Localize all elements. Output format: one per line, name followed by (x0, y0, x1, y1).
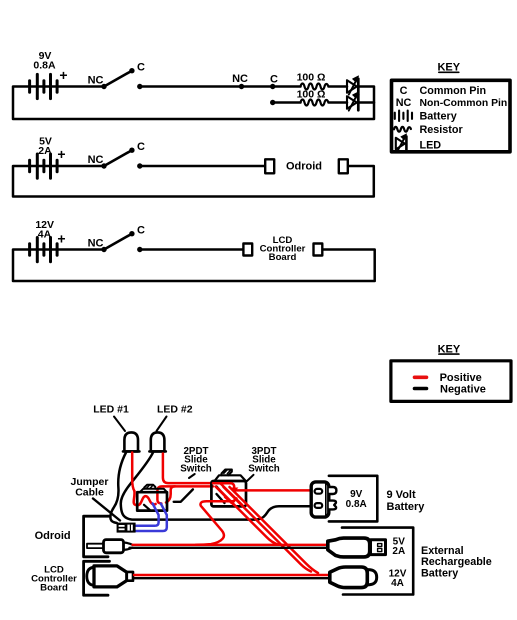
Odroid bracket (84, 516, 110, 557)
red S-wire 3PDT to lower red rail (196, 501, 234, 545)
svg-text:Common Pin: Common Pin (420, 85, 487, 97)
LCD Controller Board label (260, 235, 306, 263)
wire LED2 positive leg (red) (163, 454, 213, 484)
red hatches inside 3PDT (216, 484, 243, 506)
wire black LCD to 12V rail (134, 577, 330, 579)
wire loop2 (13, 166, 374, 197)
svg-text:Odroid: Odroid (286, 161, 322, 173)
9V box (329, 476, 377, 522)
Odroid pin left (265, 159, 274, 173)
svg-text:Cable: Cable (75, 486, 104, 498)
svg-text:C: C (270, 74, 278, 86)
label 12V 4A (389, 568, 407, 589)
LCD pin right (314, 244, 323, 256)
red arrowhead in 3PDT (230, 488, 238, 493)
red feed through 3PDT (213, 483, 234, 489)
svg-text:2A: 2A (392, 546, 405, 557)
svg-text:Battery: Battery (387, 501, 426, 513)
LED D1 (347, 76, 359, 95)
LCD bracket (84, 561, 110, 595)
svg-text:Positive: Positive (440, 372, 482, 384)
battery B1 label 9V 0.8A (33, 50, 67, 83)
jumper cable connector (117, 523, 136, 533)
key1 row C (400, 85, 487, 97)
key1 row NC (396, 97, 508, 109)
svg-text:Battery: Battery (420, 111, 457, 123)
key1 battery icon (395, 111, 412, 121)
red wave inside 2PDT (134, 491, 156, 505)
battery B2 label 5V 2A (38, 136, 65, 163)
resistor R2 100ohm (297, 89, 329, 106)
svg-text:NC: NC (88, 238, 104, 250)
switch S3 (88, 225, 145, 253)
wire LED1 negative leg (black) (110, 453, 126, 524)
blue jumper wire 2 (136, 504, 167, 532)
red diagonal 3PDT to 12V a (224, 487, 312, 572)
red diagonal 3PDT to 12V b (230, 487, 319, 573)
key2 box (391, 361, 511, 402)
key2 positive (415, 372, 482, 384)
label LED #1 (93, 404, 129, 432)
svg-text:Battery: Battery (421, 567, 458, 579)
svg-text:C: C (400, 85, 408, 97)
wire red LCD to 12V rail (134, 574, 330, 576)
node NC2 (232, 73, 248, 89)
external battery bracket (342, 528, 413, 595)
svg-text:NC: NC (396, 97, 412, 109)
wire loop1 (13, 87, 374, 120)
wire LED1 positive leg (red) (132, 453, 134, 492)
blue jumper wire 1 (136, 504, 159, 526)
label 9V 0.8A (346, 489, 367, 510)
key1 title (437, 62, 460, 74)
svg-text:Board: Board (269, 252, 297, 263)
svg-text:LED #2: LED #2 (157, 404, 193, 416)
svg-text:Switch: Switch (180, 463, 212, 474)
key1 resistor icon (394, 127, 411, 132)
wire branch2 (273, 101, 374, 104)
svg-text:LED #1: LED #1 (93, 404, 129, 416)
switch S2 (88, 141, 145, 169)
wire black Odroid to 5V rail (130, 547, 330, 549)
wire red Odroid to 5V rail (133, 544, 330, 546)
USB 5V plug (328, 538, 386, 557)
key1 LED icon (396, 134, 407, 151)
svg-text:Rechargeable: Rechargeable (421, 556, 492, 568)
resistor R1 100ohm (297, 72, 329, 90)
red chevron under 3PDT (225, 497, 237, 503)
red diagonal 3PDT to 5V (218, 488, 279, 545)
LED #1 body (124, 432, 138, 451)
label Jumper Cable (71, 476, 120, 520)
svg-text:0.8A: 0.8A (346, 499, 367, 510)
LCD plug (87, 566, 133, 587)
wire loop3 (13, 250, 375, 282)
LED D2 (347, 92, 359, 111)
LED #2 body (151, 432, 165, 451)
switch S1 NC (88, 62, 145, 90)
label 2PDT Slide Switch (180, 446, 212, 478)
svg-text:Negative: Negative (440, 383, 486, 395)
svg-text:+: + (59, 67, 67, 83)
key2 title (438, 343, 461, 355)
label 5V 2A (392, 536, 405, 557)
9V battery connector (311, 482, 336, 517)
LCD pin left (243, 244, 252, 256)
key2 negative (415, 383, 486, 395)
12V barrel plug (330, 567, 377, 588)
svg-text:Switch: Switch (248, 463, 280, 474)
wire branch2 start node (270, 100, 275, 105)
svg-text:C: C (137, 141, 145, 153)
Odroid pin right (339, 159, 348, 173)
label External Rechargeable Battery (421, 545, 492, 580)
battery B3 (30, 238, 57, 262)
svg-text:External: External (421, 545, 464, 557)
svg-text:0.8A: 0.8A (33, 60, 56, 72)
key1 box (392, 80, 511, 152)
wire LED2 negative leg (black) to 9V battery (121, 453, 317, 520)
wire red to 9V battery (236, 489, 317, 492)
svg-text:+: + (57, 146, 65, 162)
svg-text:9 Volt: 9 Volt (387, 489, 416, 501)
battery B2 (30, 154, 57, 178)
svg-text:Odroid: Odroid (35, 530, 71, 542)
svg-text:Non-Common Pin: Non-Common Pin (420, 98, 508, 109)
2PDT switch body (137, 485, 167, 511)
svg-text:LED: LED (420, 140, 442, 152)
label LCD Controller Board (31, 564, 77, 593)
svg-text:NC: NC (88, 75, 104, 87)
battery B3 label 12V 4A (35, 219, 65, 247)
svg-text:+: + (57, 231, 65, 247)
red riser from 2PDT wave (166, 486, 175, 502)
svg-text:C: C (137, 62, 145, 74)
svg-text:C: C (137, 225, 145, 237)
label 3PDT Slide Switch (247, 446, 280, 481)
2PDT lever mark (174, 489, 193, 501)
svg-text:Resistor: Resistor (420, 124, 464, 136)
battery B1 (30, 74, 57, 98)
svg-text:NC: NC (88, 154, 104, 166)
svg-text:4A: 4A (391, 578, 404, 589)
red drop into 2PDT (157, 486, 213, 503)
Odroid barrel plug (87, 540, 133, 553)
svg-text:100 Ω: 100 Ω (297, 72, 326, 84)
svg-text:NC: NC (232, 73, 248, 85)
node C2 (270, 74, 278, 90)
svg-text:Board: Board (40, 582, 68, 593)
label 9 Volt Battery (387, 489, 426, 513)
3PDT switch body (211, 470, 246, 507)
label LED #2 (157, 404, 193, 432)
